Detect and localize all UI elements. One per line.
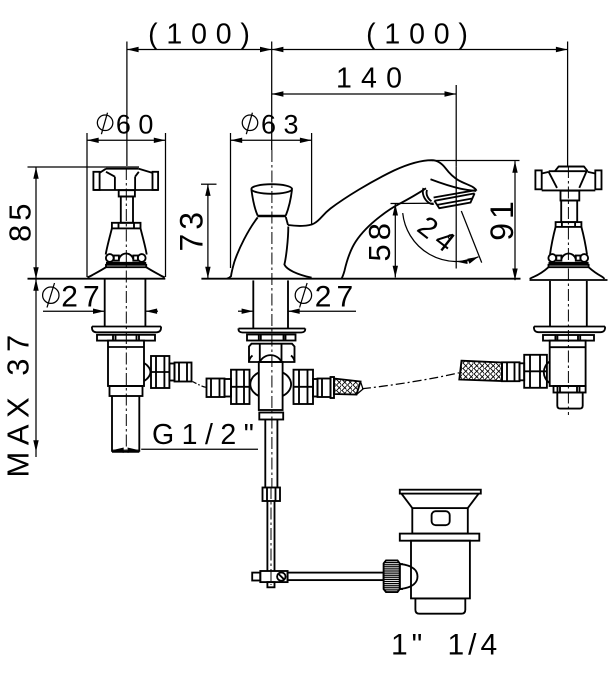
svg-text:58: 58 xyxy=(362,219,397,261)
svg-text:(100): (100) xyxy=(366,19,477,51)
svg-text:27: 27 xyxy=(61,280,104,313)
svg-text:91: 91 xyxy=(484,197,520,241)
svg-text:27: 27 xyxy=(315,280,358,313)
svg-text:140: 140 xyxy=(336,63,411,95)
svg-text:G1/2": G1/2" xyxy=(152,419,261,451)
svg-text:60: 60 xyxy=(116,110,161,140)
svg-text:1/4: 1/4 xyxy=(448,629,502,662)
svg-text:(100): (100) xyxy=(148,19,259,51)
svg-text:85: 85 xyxy=(3,200,38,242)
svg-text:63: 63 xyxy=(261,110,306,140)
svg-text:73: 73 xyxy=(173,208,209,252)
svg-text:MAX 37: MAX 37 xyxy=(1,328,36,477)
svg-text:1": 1" xyxy=(391,629,426,662)
